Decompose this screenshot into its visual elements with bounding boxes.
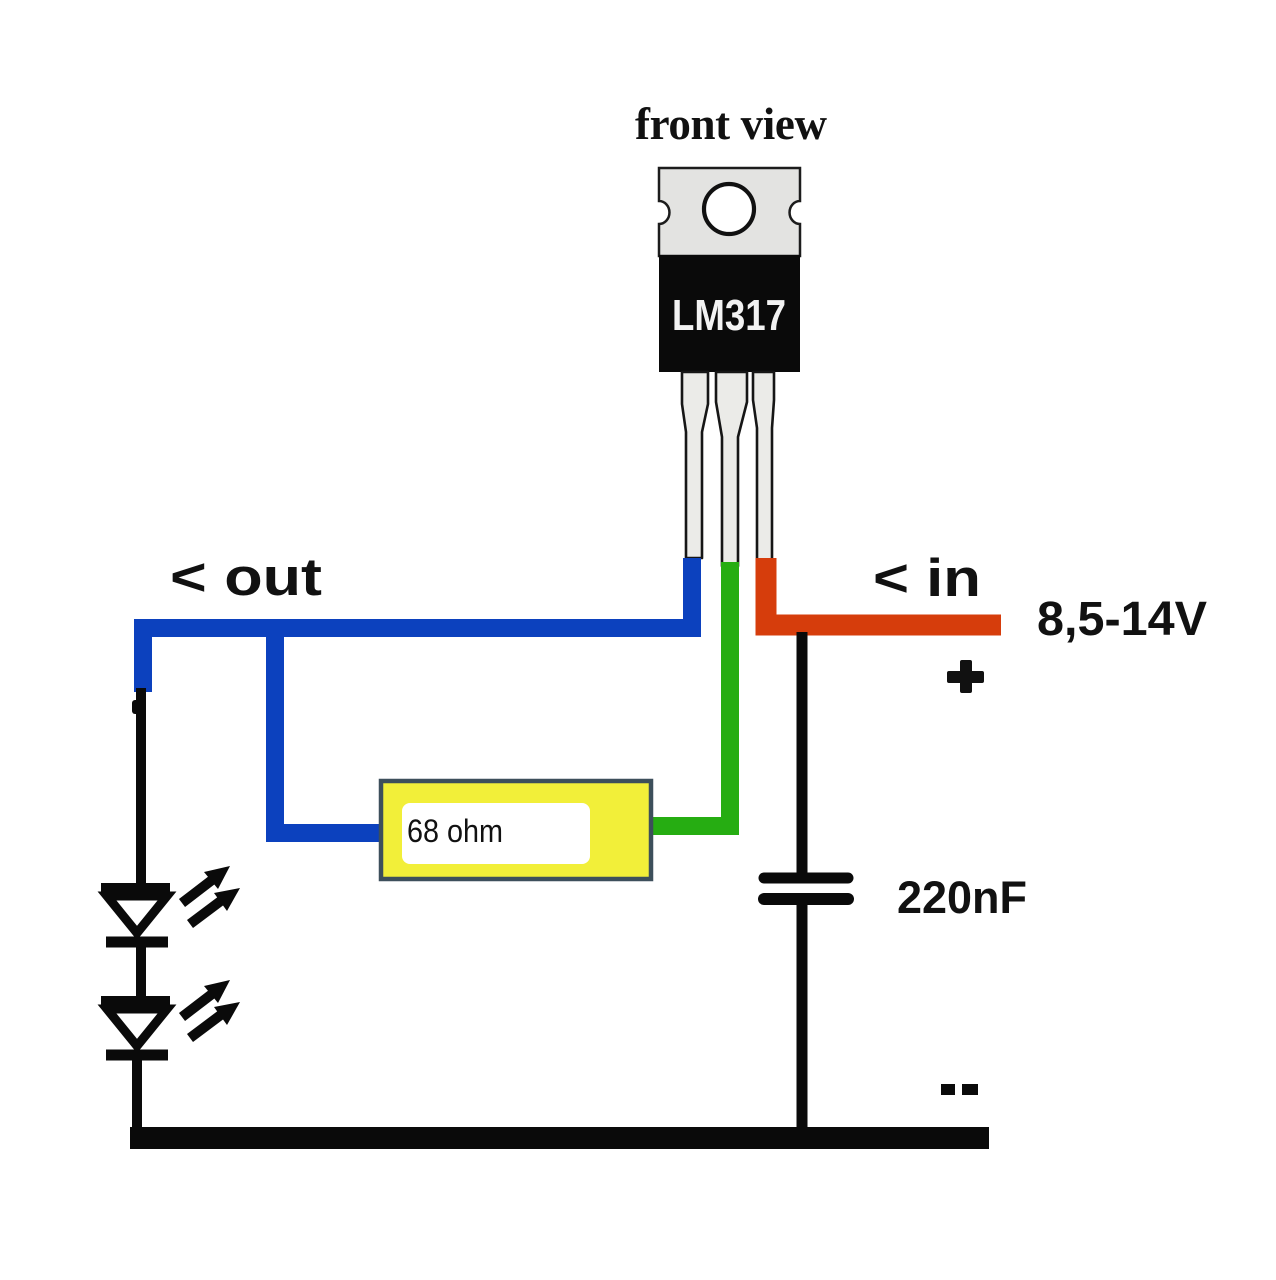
svg-text:220nF: 220nF [897,872,1027,923]
label: plus [947,660,984,693]
svg-text:< in: < in [873,549,981,608]
capacitor C1 top plate [764,873,848,884]
wire: black between LED D1 and LED D2 [136,942,146,1000]
LED D1 arrow b [190,888,240,924]
pin 2 leg (adj) [716,372,747,566]
wire: green adj net from pin2 to resistor R1 [648,562,730,826]
regulator U1 body [659,255,800,372]
wire: black left rail from blue to LED D1 [136,688,146,886]
wire: blue branch down to resistor R1 [275,637,385,833]
resistor R1 inner label area [402,803,590,864]
pin 1 leg (out) [682,372,708,558]
svg-text:front view: front view [635,99,828,149]
LED D1 triangle [107,896,167,933]
LED D2 triangle [107,1009,167,1046]
LED D1 arrow a [182,866,230,903]
wire: black from LED D2 down to negative rail [132,1055,142,1137]
wire: orange in net from pin3 to supply [766,558,1001,625]
LED D2 arrow b [190,1002,240,1038]
svg-text:LM317: LM317 [672,291,786,340]
LED D2 anode bar [101,996,170,1008]
LED D2 arrow a [182,980,230,1017]
LED D1 cathode bar [106,937,168,948]
svg-text:8,5-14V: 8,5-14V [1037,593,1207,646]
LED D2 cathode bar [106,1050,168,1061]
resistor R1 body [381,781,651,879]
svg-text:< out: < out [170,548,322,607]
LED D1 anode bar [101,883,170,895]
regulator U1 LM317 TO-220 tab [659,168,800,256]
svg-text:68 ohm: 68 ohm [407,813,503,849]
capacitor C1 bottom plate [764,893,848,905]
wire: blue out net from pin1 to left rail [143,558,692,692]
wire: negative rail (bottom) [130,1127,989,1149]
wire: capacitor C1 lower lead to negative rail [797,905,808,1140]
pin 3 leg (in) [753,372,774,560]
regulator U1 mounting hole [704,184,754,234]
label: minus [941,1084,978,1095]
node: solder knot on left rail [132,700,143,714]
wire: black lead from in-net down to capacitor C1 [797,632,808,874]
